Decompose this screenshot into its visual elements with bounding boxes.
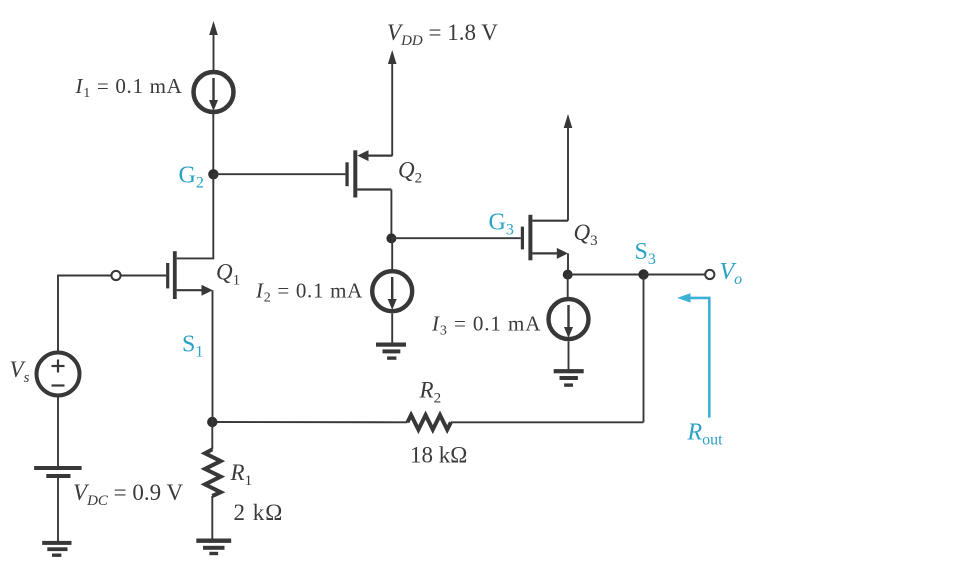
input terminal (open circle) bbox=[111, 271, 120, 280]
wire S3 down to feedback wire bbox=[643, 275, 645, 423]
Rout arrow (cyan) bbox=[677, 293, 709, 417]
wire node down to I3 bbox=[567, 275, 569, 298]
wire Q1 source down to S1 bbox=[212, 290, 214, 422]
svg-text:G2: G2 bbox=[179, 163, 204, 192]
wire Q3 source down to node bbox=[567, 253, 569, 274]
resistor R1 bbox=[205, 449, 221, 496]
output terminal Vo (open circle) bbox=[705, 270, 714, 279]
svg-text:G3: G3 bbox=[489, 210, 514, 239]
transistor Q2 bbox=[345, 150, 392, 197]
wire I1 to node G2 bbox=[212, 114, 214, 174]
svg-text:18 kΩ: 18 kΩ bbox=[410, 443, 467, 468]
ground (Vs branch) bbox=[42, 541, 71, 557]
transistor Q3 bbox=[521, 215, 568, 260]
wire battery to ground bbox=[57, 478, 59, 541]
wire node down to I2 bbox=[391, 238, 393, 270]
wire Q2 drain down to node bbox=[390, 190, 392, 239]
svg-text:Q1: Q1 bbox=[216, 260, 240, 289]
wire Q2 source to VDD arrow bbox=[388, 50, 397, 156]
svg-text:Vo: Vo bbox=[720, 259, 743, 288]
wire node to Q3 gate bbox=[391, 237, 520, 239]
svg-text:S3: S3 bbox=[635, 239, 656, 268]
wire with arrow above I1 bbox=[209, 21, 218, 70]
node S3 bbox=[638, 269, 648, 279]
svg-text:Vs: Vs bbox=[10, 357, 30, 386]
wire R2 right segment bbox=[451, 421, 644, 423]
svg-text:I2 = 0.1 mA: I2 = 0.1 mA bbox=[255, 279, 363, 306]
svg-text:I1 = 0.1 mA: I1 = 0.1 mA bbox=[75, 74, 183, 101]
transistor Q1 bbox=[166, 251, 213, 299]
svg-text:Q2: Q2 bbox=[398, 158, 422, 187]
wire G2 down to Q1 drain bbox=[177, 174, 214, 258]
wire Q3 drain up with arrow bbox=[564, 114, 573, 221]
wire I3 to ground bbox=[568, 341, 570, 369]
wire S3 to output terminal bbox=[644, 274, 706, 276]
svg-text:VDC = 0.9 V: VDC = 0.9 V bbox=[73, 480, 183, 509]
ground (I2 branch) bbox=[376, 343, 406, 360]
current source I1 bbox=[194, 72, 234, 112]
svg-text:R1: R1 bbox=[230, 460, 253, 489]
wire input terminal to Vs bbox=[58, 276, 111, 352]
node Q3 source bbox=[563, 270, 573, 280]
svg-text:Q3: Q3 bbox=[574, 220, 598, 249]
svg-text:VDD = 1.8 V: VDD = 1.8 V bbox=[387, 20, 498, 49]
wire I2 to ground bbox=[391, 313, 393, 343]
source Vs bbox=[37, 353, 80, 396]
node S1 bbox=[207, 417, 217, 427]
wire S1 to R1 bbox=[211, 422, 213, 449]
wire node to S3 bbox=[568, 274, 644, 276]
wire G2 to Q2 gate bbox=[213, 173, 345, 175]
wire R1 to ground bbox=[211, 496, 213, 539]
resistor R2 bbox=[408, 415, 451, 430]
svg-text:I3 = 0.1 mA: I3 = 0.1 mA bbox=[431, 312, 541, 339]
current source I2 bbox=[372, 271, 412, 311]
wire gate of Q1 to input terminal bbox=[121, 275, 166, 277]
svg-text:S1: S1 bbox=[182, 332, 203, 361]
svg-text:2 kΩ: 2 kΩ bbox=[234, 500, 284, 525]
ground (R1 branch) bbox=[196, 539, 231, 556]
ground (I3 branch) bbox=[554, 369, 584, 387]
current source I3 bbox=[549, 299, 589, 339]
wire Vs to battery bbox=[57, 396, 59, 467]
svg-text:Rout: Rout bbox=[687, 420, 724, 449]
wire R2 left segment bbox=[212, 421, 407, 423]
node G2 bbox=[208, 169, 218, 179]
battery VDC bbox=[34, 466, 82, 478]
svg-text:R2: R2 bbox=[419, 378, 442, 407]
node Q2 drain / G3 bbox=[386, 233, 396, 243]
